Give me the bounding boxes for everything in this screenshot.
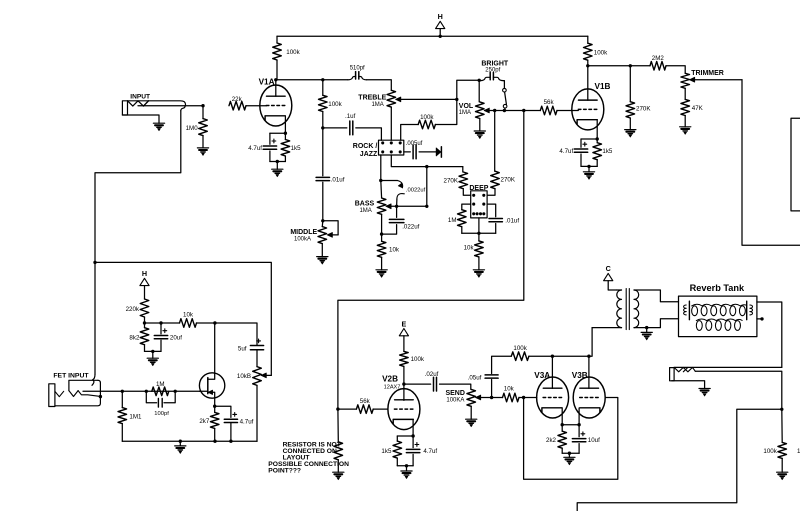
svg-text:1MA: 1MA: [459, 110, 471, 116]
svg-text:100kA: 100kA: [294, 237, 311, 243]
svg-text:56k: 56k: [360, 398, 371, 405]
svg-text:100k: 100k: [328, 101, 342, 108]
svg-text:Reverb Tank: Reverb Tank: [690, 283, 745, 293]
svg-text:MIDDLE: MIDDLE: [290, 229, 317, 236]
svg-text:47K: 47K: [692, 105, 704, 112]
svg-text:100k: 100k: [411, 356, 425, 363]
svg-text:H: H: [142, 269, 147, 278]
svg-text:20uf: 20uf: [170, 335, 182, 342]
svg-text:1MA: 1MA: [359, 208, 371, 214]
svg-text:TRIMMER: TRIMMER: [691, 70, 724, 77]
svg-text:.1uf: .1uf: [345, 113, 356, 120]
svg-text:5uf: 5uf: [238, 345, 247, 352]
svg-text:100k: 100k: [763, 448, 777, 455]
svg-text:1k5: 1k5: [602, 148, 613, 155]
svg-text:.02uf: .02uf: [425, 371, 439, 378]
svg-text:270K: 270K: [636, 106, 651, 113]
svg-text:100k: 100k: [420, 114, 434, 121]
svg-text:1k5: 1k5: [381, 448, 392, 455]
svg-text:12AX7: 12AX7: [384, 384, 401, 390]
svg-text:V1B: V1B: [595, 82, 611, 91]
svg-text:100KA: 100KA: [446, 397, 464, 403]
svg-text:100k: 100k: [594, 49, 608, 56]
svg-text:100k: 100k: [513, 345, 527, 352]
svg-text:DEEP: DEEP: [469, 185, 488, 192]
svg-text:2k7: 2k7: [199, 418, 210, 425]
svg-text:10k: 10k: [389, 247, 400, 254]
svg-text:E: E: [402, 319, 407, 328]
svg-text:10uf: 10uf: [588, 437, 600, 444]
svg-text:.0022uf: .0022uf: [406, 188, 426, 194]
svg-text:56k: 56k: [544, 99, 555, 106]
svg-text:100pf: 100pf: [154, 411, 169, 417]
svg-text:1M1: 1M1: [129, 414, 142, 421]
svg-text:10k: 10k: [183, 312, 194, 319]
svg-text:SEND: SEND: [445, 390, 464, 397]
svg-text:2M2: 2M2: [652, 55, 665, 62]
svg-text:8k2: 8k2: [129, 335, 140, 342]
svg-text:.022uf: .022uf: [402, 223, 419, 230]
svg-text:V1A: V1A: [259, 77, 275, 86]
svg-text:4.7uf: 4.7uf: [559, 148, 573, 155]
svg-text:VOL: VOL: [459, 103, 474, 110]
svg-text:10k: 10k: [504, 386, 515, 393]
svg-text:2k2: 2k2: [546, 437, 557, 444]
svg-text:BASS: BASS: [355, 200, 375, 207]
svg-text:INPUT: INPUT: [130, 94, 150, 101]
svg-text:H: H: [438, 12, 443, 21]
svg-text:1M: 1M: [448, 217, 457, 224]
svg-text:10kB: 10kB: [237, 373, 251, 380]
svg-text:ROCK /: ROCK /: [353, 143, 378, 150]
svg-text:V3B: V3B: [572, 371, 588, 380]
svg-text:.05uf: .05uf: [468, 375, 482, 382]
svg-text:FET INPUT: FET INPUT: [53, 372, 89, 379]
svg-text:10k: 10k: [464, 244, 475, 251]
svg-text:4.7uf: 4.7uf: [240, 418, 254, 425]
svg-text:.01uf: .01uf: [331, 176, 345, 183]
svg-text:220k: 220k: [126, 306, 140, 313]
svg-text:4.7uf: 4.7uf: [423, 448, 437, 455]
svg-text:510pf: 510pf: [350, 66, 365, 72]
svg-text:100k: 100k: [286, 49, 300, 56]
svg-text:.005uf: .005uf: [406, 141, 423, 147]
svg-text:4.7uf: 4.7uf: [248, 145, 262, 152]
svg-text:250pf: 250pf: [485, 67, 500, 73]
svg-text:1M: 1M: [156, 381, 165, 388]
svg-text:270K: 270K: [501, 176, 516, 183]
svg-text:TREBLE: TREBLE: [358, 95, 386, 102]
svg-text:1M0: 1M0: [186, 125, 199, 132]
svg-text:270K: 270K: [444, 177, 459, 184]
svg-text:V3A: V3A: [534, 371, 550, 380]
svg-text:V2B: V2B: [382, 375, 398, 384]
svg-text:22k: 22k: [232, 96, 243, 103]
svg-text:.01uf: .01uf: [505, 217, 519, 224]
svg-text:1k5: 1k5: [291, 145, 302, 152]
svg-text:POINT???: POINT???: [268, 467, 301, 474]
svg-text:1MA: 1MA: [371, 102, 383, 108]
svg-text:C: C: [606, 264, 611, 273]
svg-text:JAZZ: JAZZ: [360, 151, 378, 158]
